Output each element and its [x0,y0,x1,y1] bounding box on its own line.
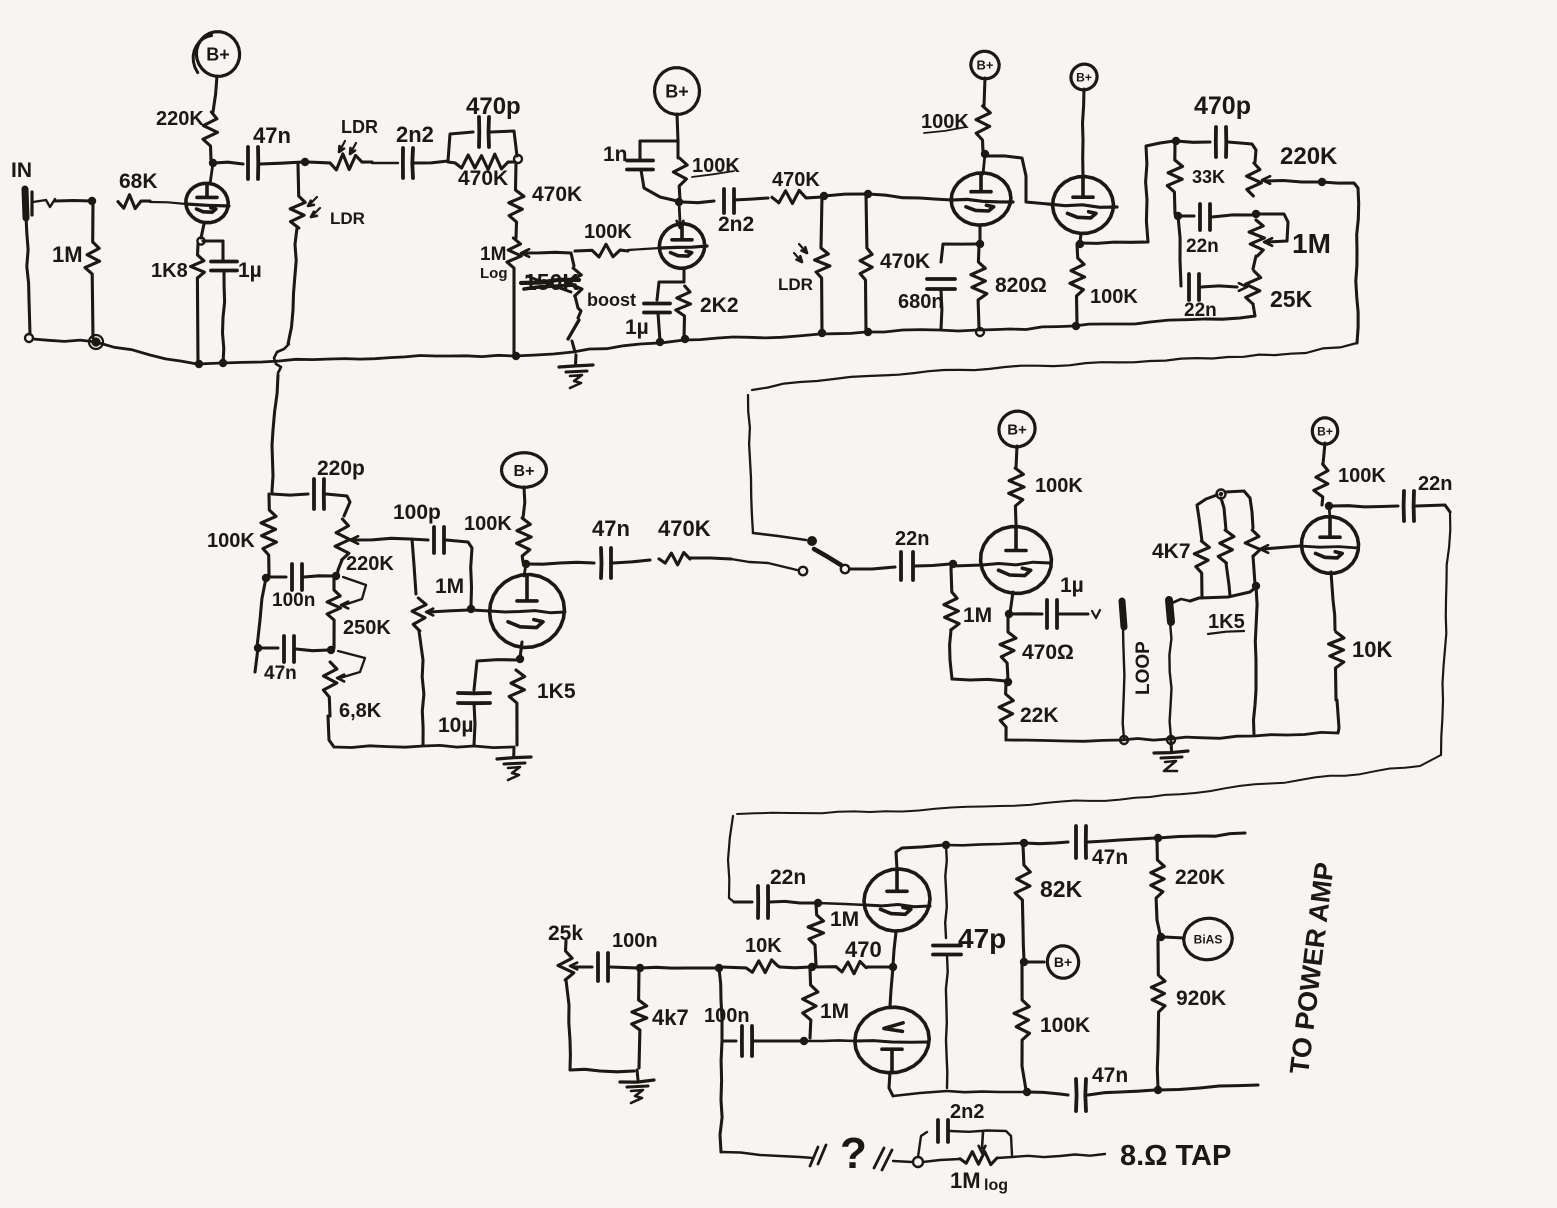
wire 220K bottom [337,560,342,578]
wire V3 plate lead [983,154,985,174]
potentiometer 1M log nfb [950,1132,1012,1194]
node bus 1K8 [195,359,227,368]
svg-text:25K: 25K [1270,286,1313,312]
capacitor 47n mid [260,636,329,684]
ground presence [620,1070,654,1103]
B+ supply node 3 [971,51,999,78]
svg-text:470K: 470K [658,516,711,541]
svg-text:10K: 10K [745,935,782,957]
svg-text:100K: 100K [464,513,512,535]
wire return bus down [1254,586,1258,735]
node B+ pi [1020,958,1028,966]
capacitor 47n out [592,516,630,578]
resistor 1M input [52,201,100,338]
capacitor 47n pi bottom [1027,1064,1155,1111]
capacitor 100n pi [704,1005,801,1056]
node V5 cathode [516,655,524,663]
svg-text:100K: 100K [921,111,969,133]
node bias [1157,933,1165,941]
wire V3 cathode [978,226,981,242]
svg-text:1K5: 1K5 [1208,611,1245,633]
svg-text:1µ: 1µ [625,316,649,339]
wire switch out [850,567,895,569]
wire tone output long [748,343,1357,533]
potentiometer 1M mid [412,575,469,631]
resistor 100K V2 plate [673,155,740,200]
potentiometer return level [1225,491,1300,584]
node mid grid [467,605,475,613]
capacitor 220p [314,457,365,516]
LDR series resistor [307,117,398,170]
svg-text:B+: B+ [1317,424,1333,438]
wire switch upper contact [753,533,806,540]
wire 1M to 470R bottom [952,679,1006,681]
svg-text:220K: 220K [156,108,204,130]
node volume top [514,155,522,163]
svg-text:470: 470 [845,937,882,962]
node V6 grid [949,560,957,568]
svg-text:220K: 220K [1175,866,1225,889]
wire 10K to node [780,965,810,969]
wire V7 cathode [1331,572,1335,630]
capacitor 10u [438,660,518,745]
node V4 cathode [1076,240,1084,248]
switch channel select [799,536,849,575]
resistor 1M pi lower [803,969,850,1038]
resistor 1K8 [151,244,204,364]
wire 2n2 to 470K [414,161,448,163]
node V6 cathode [1005,610,1013,618]
resistor 920K [1151,939,1226,1088]
wire V4 cathode to tone [1080,141,1174,243]
wire node C to V3 grid [868,194,952,200]
capacitor 680n [898,244,978,329]
node E [976,328,984,336]
svg-text:?: ? [840,1129,867,1178]
svg-text:B+: B+ [1007,421,1027,438]
svg-text:820Ω: 820Ω [995,274,1047,297]
svg-text:22n: 22n [1186,236,1219,257]
potentiometer 1M tone [1249,214,1331,259]
resistor 100K V3 plate [921,106,990,152]
wire plate bottom out [1158,1085,1258,1090]
wire return to divider [1190,598,1199,601]
capacitor 22n tone2 [1178,216,1247,321]
svg-text:2n2: 2n2 [396,122,434,147]
svg-text:Log: Log [480,265,508,282]
svg-text:680n: 680n [898,291,944,313]
bias supply node [1164,918,1232,960]
svg-text:2K2: 2K2 [700,294,739,317]
resistor 470K series [448,154,514,190]
resistor 100K V5 plate [464,513,531,562]
wire 22n to V6 grid [915,564,950,566]
svg-text:22n: 22n [770,866,806,889]
LDR shunt 2 [778,196,830,332]
svg-text:220K: 220K [1280,143,1338,170]
resistor 10K V7 [1329,632,1393,733]
node treble wiper [1318,178,1326,186]
wire plate line bottom [893,1091,1025,1096]
node nfb [913,1157,923,1167]
resistor 100K V7 plate [1314,464,1387,505]
wire V2 plate lead [677,202,684,228]
potentiometer 25K bass [1246,271,1313,312]
node 4k7 top [636,964,644,972]
resistor 1K5 return [1199,498,1255,634]
capacitor 22n tone1 [1180,204,1254,257]
jack loop send [1122,601,1124,739]
node bus V2 [656,322,1080,346]
capacitor 100p [393,501,472,606]
resistor 470K out [658,516,731,565]
wire V5 plate lead [524,564,526,576]
node 82K top [1020,839,1028,847]
svg-text:250K: 250K [343,617,391,639]
svg-text:25k: 25k [548,922,583,945]
wire V7 plate lead [1329,506,1330,518]
svg-text:log: log [984,1177,1008,1194]
B+ supply node 4 [1071,64,1097,90]
svg-text:BiAS: BiAS [1194,932,1223,946]
ground middle right [1154,741,1188,771]
wire nfb mid [893,1161,912,1162]
wire to V5 grid [471,610,490,611]
svg-text:1µ: 1µ [238,259,262,282]
svg-text:47n: 47n [1092,1064,1128,1087]
svg-text:6,8K: 6,8K [339,700,382,722]
svg-text:100n: 100n [612,930,658,952]
node pi cathode [868,963,897,971]
node 47p top [942,841,950,849]
svg-text:10K: 10K [1352,637,1392,662]
junction boost [571,253,574,266]
wire input jack to grid node [33,199,92,207]
B+ supply node 8 [1027,946,1079,978]
node V3 plate [981,150,989,158]
svg-text:B+: B+ [665,81,689,101]
svg-text:82K: 82K [1040,876,1083,902]
svg-text:470p: 470p [1194,92,1251,120]
svg-text:100n: 100n [704,1005,750,1027]
wire 100n to node [610,967,638,968]
wire 220K to bias node [1157,920,1160,934]
svg-text:IN: IN [11,159,32,182]
node divider top [1217,490,1226,499]
svg-text:LDR: LDR [778,275,813,294]
svg-text:47n: 47n [264,663,297,684]
node 47n mid [254,644,262,652]
B+ supply node 7 [1312,418,1337,444]
wire tick send [1092,610,1100,618]
wire left rail down [719,968,722,1152]
label loop [1133,641,1154,695]
wire V9 plate down [889,1072,893,1096]
svg-text:47n: 47n [592,516,630,541]
svg-text:220p: 220p [317,457,365,480]
svg-text:100K: 100K [1090,286,1138,308]
B+ supply node 6 [999,411,1035,447]
triode V6 [981,527,1052,594]
jack loop return [1169,599,1190,738]
svg-text:LDR: LDR [341,117,378,137]
LDR shunt resistor [288,164,365,344]
resistor 470 pi [814,937,882,974]
svg-text:1M: 1M [52,242,83,267]
triode V4 [1048,177,1117,234]
resistor 220K pi [1151,839,1225,920]
resistor 68K [118,170,186,209]
resistor 470R [1000,616,1074,680]
svg-text:100n: 100n [272,590,315,611]
svg-text:470p: 470p [466,93,521,120]
wire B+7 down [1323,443,1325,464]
resistor 1M V6 grid [944,568,992,679]
node C [864,190,872,198]
capacitor 22n fx out [1332,473,1452,521]
triode V2 [659,224,707,269]
capacitor 2n2 [396,122,434,178]
node pi input [808,963,816,971]
node 6K8 top [327,646,335,654]
triode V3 [951,173,1013,225]
wire B+5 down [523,487,525,518]
node mid input [272,491,308,495]
node left rail [715,964,723,972]
ground middle left [497,747,531,780]
wire wiper to 100p [410,539,428,540]
node 220K mid bottom [332,572,340,580]
svg-text:1M: 1M [820,1000,849,1023]
capacitor 470p [448,93,521,161]
node A [301,158,309,166]
wire V7 grid [1300,546,1358,548]
svg-text:1n: 1n [603,143,628,166]
wire plate line top [944,843,1022,845]
wire to 8ohm tap [1012,1154,1105,1157]
svg-text:100K: 100K [584,221,632,243]
svg-text:470K: 470K [772,169,820,191]
svg-text:2n2: 2n2 [950,1101,984,1123]
node V1 plate [209,159,217,167]
potentiometer 220K mid [335,519,410,575]
svg-text:100K: 100K [1035,475,1083,497]
node input [88,197,96,205]
resistor 220K plate V1 [156,108,218,160]
svg-text:B+: B+ [1076,70,1092,84]
switch boost [568,290,636,352]
node tone link [1252,210,1260,218]
resistor 4K7 [1152,495,1217,598]
wire to node C [824,194,866,196]
svg-text:1M: 1M [1292,228,1331,259]
node 920K bottom [1154,1086,1162,1094]
potentiometer 1M Log volume [480,238,571,356]
bus top ground return [25,319,1205,364]
wire B+3 down [984,78,985,106]
wire B+1 to 220K [213,76,217,112]
svg-text:100K: 100K [1338,465,1386,487]
svg-text:100p: 100p [393,501,441,524]
svg-text:4K7: 4K7 [1152,540,1191,563]
node V2 plate [675,198,683,206]
node 100K mid bottom [262,574,270,582]
wire 1M mid down [419,631,424,745]
resistor 82K [1015,845,1082,928]
wire V5 cathode [520,642,522,658]
svg-text:1µ: 1µ [1060,574,1084,597]
resistor 470K to volume [509,163,582,238]
resistor 4k7 presence [632,969,689,1068]
svg-text:47n: 47n [1092,846,1128,869]
capacitor 470p tone [1176,92,1256,162]
capacitor 47n pi top [1024,826,1155,869]
wire B+6 down [1016,446,1017,468]
wire 100p branch to 1M [412,539,416,594]
wire jack sleeve down [26,216,30,334]
potentiometer 250K mid [327,577,391,648]
potentiometer 220K treble [1247,143,1338,196]
wire grid V6 [953,562,1050,566]
wire nfb left [721,1152,813,1158]
node V3 cathode [976,240,984,248]
wire nfb to pot [923,1159,960,1162]
wire 6K8 to bus [328,716,334,747]
capacitor 1u V2 [625,282,684,341]
resistor 33K [1167,143,1225,214]
node bus left [89,335,103,349]
wire V1 plate [210,163,213,184]
potentiometer 6.8K mid [323,651,381,722]
wire V3 plate to V4 grid [986,156,1048,204]
svg-text:470Ω: 470Ω [1022,641,1074,664]
svg-text:1K5: 1K5 [537,680,576,703]
svg-text:22K: 22K [1020,704,1059,727]
label 8 ohm tap [1120,1140,1231,1172]
hop-over bus [272,344,289,491]
node V7 plate [1325,502,1333,510]
wire B+4 down [1083,89,1085,176]
resistor 100K V4 cathode [1070,244,1138,325]
wire V1 plate to 47n [213,162,243,164]
wire V8 cathode [893,932,896,965]
svg-text:47n: 47n [253,123,291,148]
wire V9 grid [803,1040,929,1042]
wire long feed down [728,512,1450,902]
node V5 plate [522,560,530,568]
resistor 100K pi [1014,963,1090,1090]
svg-text:B+: B+ [206,44,230,64]
node B [820,192,828,200]
svg-text:boost: boost [587,290,636,310]
svg-text:B+: B+ [1054,954,1072,970]
capacitor 1u V1 [211,259,262,364]
node D [818,328,872,337]
wire left rail mid [257,578,266,647]
svg-text:22n: 22n [1418,473,1452,495]
wire V8 plate up [896,845,944,869]
svg-text:220K: 220K [346,553,394,575]
wire V5 grid [490,611,565,613]
capacitor 100n presence [598,930,658,981]
input jack J-IN [11,159,32,218]
wire to switch lower [731,559,797,570]
node return bus [1252,582,1260,590]
svg-text:920K: 920K [1176,987,1226,1010]
wire 47n to 470K [613,560,650,563]
svg-text:1M: 1M [963,604,992,627]
node tone mid [1174,212,1182,220]
node tone top [1172,137,1180,145]
capacitor 47p [933,845,1006,1088]
wire left rail tail [255,648,258,672]
capacitor 22n pi [734,866,816,918]
wire 47n to node [260,162,303,164]
potentiometer 25k presence [548,922,634,1072]
wire 25K to bus [1205,304,1255,319]
svg-text:1M: 1M [435,575,464,598]
svg-text:33K: 33K [1192,167,1225,187]
svg-text:B+: B+ [514,463,535,480]
resistor 1K5 V5 [509,670,576,745]
node bus send [1120,736,1128,744]
hatch nfb 1 [810,1145,826,1166]
wire B+2 down [677,114,678,158]
svg-text:1M: 1M [950,1168,981,1193]
wire 82K to Bplus node [1023,928,1024,960]
node V9 grid [800,1037,808,1045]
B+ supply node 2 [655,68,700,115]
svg-text:470K: 470K [532,183,582,206]
wire 150K to boost switch [575,296,581,318]
svg-text:8.Ω TAP: 8.Ω TAP [1120,1140,1231,1172]
svg-text:B+: B+ [977,58,994,73]
wire treble out [1322,182,1359,343]
label to power amp [1284,861,1340,1076]
svg-text:1M: 1M [830,908,859,931]
svg-text:LDR: LDR [330,209,365,228]
capacitor 2n2 coupling V2 [682,189,768,236]
node V2 cathode bus [681,335,689,343]
B+ supply node 5 [502,453,547,488]
wire V6 cathode [1010,592,1013,613]
node V8 grid [814,899,822,907]
resistor 820R [971,246,1047,328]
resistor 100K V6 plate [1009,468,1084,524]
node 470R bottom [1004,678,1012,686]
node bus volume [512,352,520,360]
wire plate top out [1158,833,1245,838]
wire V2 cathode [682,268,685,280]
B+ supply node 1 [193,32,239,77]
resistor 100K mid [207,494,276,576]
svg-text:10µ: 10µ [438,714,473,737]
resistor 470K series 2 [772,169,822,204]
capacitor 1u send [1012,574,1088,628]
svg-text:68K: 68K [119,170,158,193]
capacitor 47n coupling [248,123,291,179]
capacitor 22n mid [895,528,929,580]
svg-text:22n: 22n [895,528,929,550]
svg-text:LOOP: LOOP [1133,641,1154,695]
svg-text:47p: 47p [958,923,1006,954]
svg-text:4k7: 4k7 [652,1005,689,1030]
svg-text:100K: 100K [1040,1014,1090,1037]
svg-text:470K: 470K [458,167,508,190]
wire V4 cathode [1080,234,1081,242]
node plate line bottom [1023,1088,1031,1096]
triode V9 [855,1007,929,1073]
